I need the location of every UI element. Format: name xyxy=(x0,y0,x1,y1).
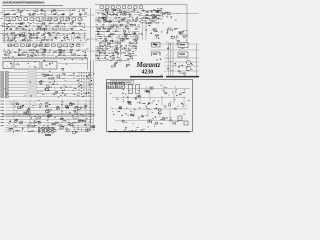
connector pin xyxy=(86,92,88,94)
connector pin xyxy=(78,85,80,87)
wire xyxy=(135,40,137,42)
wire xyxy=(95,31,100,33)
wire xyxy=(43,124,45,130)
diode xyxy=(105,9,107,12)
jack text xyxy=(6,95,8,98)
resistor xyxy=(6,13,8,15)
value label xyxy=(33,101,36,104)
value label xyxy=(176,38,177,41)
resistor xyxy=(18,26,21,28)
coil xyxy=(129,14,131,16)
value label xyxy=(21,121,22,124)
IC block xyxy=(154,17,157,19)
connector block xyxy=(116,83,125,89)
value label xyxy=(150,108,151,111)
coil xyxy=(129,55,131,57)
jack text xyxy=(1,95,3,98)
resistor xyxy=(132,45,134,47)
value label xyxy=(43,18,44,21)
wire xyxy=(116,42,118,57)
wire xyxy=(92,100,94,131)
value label xyxy=(126,24,129,27)
value label xyxy=(159,14,161,17)
coil xyxy=(99,17,101,18)
wire xyxy=(163,43,199,45)
wire xyxy=(2,34,17,36)
value label xyxy=(82,44,84,47)
capacitor xyxy=(50,23,51,24)
value label xyxy=(17,8,19,11)
value label xyxy=(118,110,120,113)
RCA jack label xyxy=(5,75,8,77)
diode xyxy=(44,75,46,77)
wire xyxy=(13,100,15,128)
wire xyxy=(104,21,111,23)
resistor xyxy=(102,50,105,52)
wire xyxy=(95,11,104,13)
wire xyxy=(183,96,185,108)
part number label xyxy=(62,89,63,92)
coil xyxy=(163,118,165,120)
value label xyxy=(166,32,168,35)
value label xyxy=(33,34,35,37)
value label xyxy=(127,114,129,117)
wire xyxy=(87,50,95,52)
value label xyxy=(32,49,34,52)
part number label xyxy=(130,56,132,59)
resistor xyxy=(29,32,32,34)
coil xyxy=(10,28,12,30)
diode xyxy=(112,34,114,35)
value label xyxy=(36,100,37,103)
value label xyxy=(104,52,106,55)
wire xyxy=(3,22,5,28)
coil xyxy=(34,10,35,12)
wire xyxy=(112,31,121,33)
row label xyxy=(1,106,5,108)
value label xyxy=(64,23,65,26)
resistor xyxy=(107,55,108,57)
value label xyxy=(98,12,100,15)
value label xyxy=(40,41,42,44)
wire xyxy=(57,10,73,12)
value label xyxy=(41,79,42,82)
coil xyxy=(152,18,154,19)
wire xyxy=(94,129,96,131)
value label xyxy=(121,48,123,51)
coil xyxy=(143,103,145,105)
capacitor xyxy=(70,28,73,30)
value label xyxy=(175,64,176,67)
row label xyxy=(1,122,5,124)
transistor xyxy=(99,36,101,38)
wire xyxy=(23,33,25,41)
value label xyxy=(146,114,147,117)
wire xyxy=(95,19,100,21)
IC block xyxy=(20,44,24,47)
wire xyxy=(140,15,152,17)
wire xyxy=(57,54,70,56)
part number label xyxy=(51,62,54,63)
IC block xyxy=(71,13,73,15)
IC block xyxy=(67,105,69,108)
RCA jack label xyxy=(1,87,4,89)
value label xyxy=(58,14,60,17)
value label xyxy=(112,41,113,44)
IC block xyxy=(54,51,56,52)
resistor xyxy=(120,50,122,52)
value label xyxy=(175,34,178,37)
IC block xyxy=(45,44,49,47)
RCA jack label xyxy=(1,84,4,86)
value label xyxy=(7,26,10,29)
wire xyxy=(84,32,86,40)
value label xyxy=(48,24,49,27)
connector pin xyxy=(78,76,80,78)
wire xyxy=(87,14,95,16)
part number label xyxy=(68,106,70,109)
coil xyxy=(60,48,62,51)
wire xyxy=(127,26,134,28)
wire xyxy=(101,36,114,38)
part number label xyxy=(158,113,159,114)
part number label xyxy=(64,49,66,52)
value label xyxy=(180,48,181,51)
transistor xyxy=(33,37,35,39)
wire xyxy=(84,13,87,15)
value label xyxy=(135,108,136,111)
switch label xyxy=(49,63,51,66)
resistor xyxy=(146,14,148,17)
connector pin xyxy=(88,85,90,87)
value label xyxy=(65,86,67,89)
wire xyxy=(41,32,48,34)
value label xyxy=(119,10,120,13)
wire xyxy=(37,13,45,15)
value label xyxy=(82,50,84,53)
value label xyxy=(75,33,76,36)
IC block xyxy=(60,51,62,52)
part number label xyxy=(104,56,107,59)
value label xyxy=(161,18,162,21)
value label xyxy=(14,35,16,38)
resistor xyxy=(113,52,115,55)
value label xyxy=(66,85,68,88)
diode xyxy=(45,105,47,107)
speaker terminal block xyxy=(152,52,161,57)
wire xyxy=(52,28,62,30)
IC block xyxy=(76,44,80,47)
connector pin label xyxy=(122,86,123,89)
diode xyxy=(25,37,27,39)
transistor xyxy=(20,23,22,25)
value label xyxy=(8,122,10,125)
value label xyxy=(135,129,136,132)
value label xyxy=(124,35,126,38)
value label xyxy=(63,15,64,18)
wire xyxy=(65,131,76,133)
wire xyxy=(53,26,66,28)
part number label xyxy=(133,114,134,117)
transistor xyxy=(115,63,117,64)
value label xyxy=(96,18,97,21)
capacitor xyxy=(15,120,17,122)
jack text xyxy=(6,80,8,83)
wire xyxy=(18,48,20,54)
coil xyxy=(66,34,68,36)
transistor xyxy=(105,19,107,21)
value label xyxy=(73,72,75,75)
value label xyxy=(41,8,43,11)
part number label xyxy=(35,115,36,118)
resistor xyxy=(129,33,131,35)
IC block xyxy=(114,9,116,10)
value label xyxy=(111,8,113,11)
connector pin label xyxy=(112,82,113,85)
capacitor xyxy=(61,68,64,70)
wire xyxy=(125,48,135,50)
resistor xyxy=(55,36,57,39)
value label xyxy=(123,96,124,99)
coil xyxy=(77,106,79,108)
value label xyxy=(101,17,102,20)
IC block xyxy=(132,57,134,59)
jack text xyxy=(1,83,3,86)
value label xyxy=(79,37,81,40)
value label xyxy=(38,99,40,102)
IC block xyxy=(101,45,103,47)
resistor xyxy=(41,80,42,81)
wire xyxy=(25,10,35,12)
wire xyxy=(173,94,175,104)
coil xyxy=(74,110,76,112)
bias block xyxy=(178,116,182,121)
value label xyxy=(147,22,149,25)
value label xyxy=(122,28,125,31)
parts list text xyxy=(51,129,54,132)
value label xyxy=(71,46,72,49)
value label xyxy=(26,112,28,115)
diode xyxy=(84,107,86,109)
IC block xyxy=(119,57,121,59)
coil xyxy=(122,120,124,122)
connector pin label xyxy=(113,85,115,88)
value label xyxy=(28,45,29,48)
value label xyxy=(134,38,136,41)
resistor xyxy=(77,32,79,34)
IC block xyxy=(154,108,157,110)
value label xyxy=(60,9,61,12)
transistor xyxy=(107,43,108,45)
wire xyxy=(73,129,80,131)
value label xyxy=(75,105,77,108)
wire xyxy=(31,71,33,98)
connector pin xyxy=(86,79,88,81)
connector pin xyxy=(86,75,88,77)
parts list text xyxy=(49,130,52,133)
resistor xyxy=(105,16,106,19)
IC block xyxy=(78,18,82,21)
IC block xyxy=(134,6,137,9)
value label xyxy=(175,86,176,89)
value label xyxy=(27,18,28,21)
wire xyxy=(80,129,92,131)
transistor xyxy=(125,14,127,16)
value label xyxy=(131,129,132,132)
value label xyxy=(123,39,125,42)
capacitor xyxy=(21,55,23,56)
resistor xyxy=(103,42,105,45)
value label xyxy=(124,129,125,132)
wire xyxy=(77,100,79,128)
value label xyxy=(74,35,76,38)
row label xyxy=(1,119,5,121)
value label xyxy=(114,33,115,36)
wire xyxy=(83,9,85,15)
value label xyxy=(73,117,75,120)
part number label xyxy=(81,86,82,89)
wire xyxy=(95,36,101,38)
value label xyxy=(73,118,75,121)
wire xyxy=(5,129,15,131)
value label xyxy=(20,11,22,14)
value label xyxy=(73,54,75,57)
coil xyxy=(153,15,155,17)
wire xyxy=(95,48,110,50)
coil xyxy=(108,36,109,38)
transistor xyxy=(39,28,41,30)
part number label xyxy=(191,62,192,65)
capacitor xyxy=(66,36,68,39)
IC block xyxy=(111,6,114,9)
part number label xyxy=(82,58,83,61)
coil xyxy=(175,91,177,94)
value label xyxy=(52,27,54,30)
wire xyxy=(115,120,184,122)
IC block xyxy=(168,28,171,30)
part number label xyxy=(49,104,50,105)
value label xyxy=(153,8,155,11)
resistor xyxy=(133,59,135,62)
resistor xyxy=(182,92,185,94)
diode xyxy=(104,17,107,18)
capacitor xyxy=(108,9,110,12)
svg-text:PWR AMP BOARD: PWR AMP BOARD xyxy=(112,82,132,85)
IC block xyxy=(35,37,37,39)
IC block xyxy=(120,9,121,10)
parts list text xyxy=(38,126,40,129)
connector pin label xyxy=(109,82,111,85)
IC block xyxy=(66,18,70,21)
wire xyxy=(21,49,32,51)
value label xyxy=(22,52,23,55)
value label xyxy=(68,14,71,17)
value label xyxy=(112,38,113,41)
value label xyxy=(177,105,179,108)
IC block xyxy=(117,59,119,61)
wire xyxy=(6,106,94,108)
capacitor xyxy=(120,38,122,40)
parts list text xyxy=(38,130,41,133)
IC block xyxy=(48,33,50,34)
value label xyxy=(14,25,16,28)
value label xyxy=(46,45,48,48)
value label xyxy=(153,20,155,23)
value label xyxy=(68,17,69,20)
switch assembly xyxy=(14,62,40,70)
value label xyxy=(122,18,124,21)
wire xyxy=(34,23,46,25)
IC block xyxy=(18,34,20,36)
resistor xyxy=(148,102,150,104)
coil xyxy=(154,69,158,71)
wire xyxy=(186,4,188,42)
coil xyxy=(125,55,128,57)
diode xyxy=(37,37,38,39)
wire xyxy=(47,37,60,39)
resistor xyxy=(137,11,140,13)
connector pin xyxy=(81,78,83,80)
value label xyxy=(78,80,79,83)
value label xyxy=(55,29,57,32)
diode xyxy=(61,117,63,119)
wire xyxy=(111,21,118,23)
value label xyxy=(163,22,164,25)
value label xyxy=(95,38,97,41)
value label xyxy=(140,20,141,23)
wire xyxy=(109,9,117,11)
value label xyxy=(185,104,188,107)
value label xyxy=(61,51,62,54)
value label xyxy=(60,51,62,54)
value label xyxy=(161,57,162,60)
wire xyxy=(124,55,137,57)
part number label xyxy=(121,115,122,116)
coil xyxy=(16,104,19,105)
diode xyxy=(105,38,108,40)
wire xyxy=(167,42,169,77)
value label xyxy=(26,51,28,54)
coil xyxy=(108,43,110,45)
capacitor xyxy=(52,83,55,85)
IC block xyxy=(150,10,152,12)
connector pin label xyxy=(114,82,116,85)
parts list text xyxy=(46,129,50,132)
IC block xyxy=(107,11,109,13)
value label xyxy=(139,17,140,20)
switch label xyxy=(10,63,11,66)
value label xyxy=(125,126,127,129)
resistor xyxy=(124,34,126,35)
IC block xyxy=(42,18,46,21)
value label xyxy=(134,44,136,47)
part number label xyxy=(156,59,157,60)
value label xyxy=(101,12,103,15)
part number label xyxy=(157,101,160,102)
value label xyxy=(59,124,61,127)
resistor xyxy=(109,21,111,23)
value label xyxy=(54,31,55,34)
wire xyxy=(53,51,67,53)
value label xyxy=(88,123,89,126)
part number label xyxy=(117,14,118,17)
value label xyxy=(5,33,7,36)
wire xyxy=(116,19,131,21)
connector pin xyxy=(81,94,83,96)
resistor xyxy=(106,21,108,23)
diode xyxy=(165,92,167,93)
value label xyxy=(136,37,138,40)
